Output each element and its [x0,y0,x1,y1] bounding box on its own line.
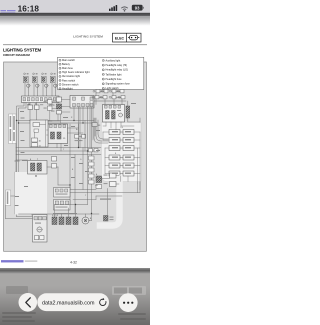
fuse labels [92,90,120,98]
top shadow under chrome [0,13,150,16]
flasher unit box [30,120,48,147]
connector box 2 [70,96,94,109]
svg-text:4-32: 4-32 [70,260,77,264]
svg-text:93: 93 [135,6,140,11]
lamp 12 [41,73,48,87]
svg-text:Illumination light: Illumination light [62,75,80,78]
wire [74,107,92,214]
right lower cluster 4 [96,173,116,189]
fuse row 13 [96,90,124,93]
wire [30,103,37,124]
svg-text:5 5 5 5: 5 5 5 5 [52,215,59,217]
wire harness verticals [80,101,95,151]
svg-text:Battery: Battery [62,63,71,66]
svg-text:12: 12 [102,74,104,76]
wire pairs exit [121,132,141,190]
wire [32,181,33,215]
wire [70,176,140,216]
diagram panel [4,62,147,251]
fuse row 14b [94,96,126,102]
svg-text:2: 2 [60,64,61,66]
wire tag speckles [15,103,136,214]
svg-text:3: 3 [60,68,61,70]
svg-text:Tail/brake light: Tail/brake light [106,73,122,76]
left trunk tags [15,118,29,207]
svg-text:14: 14 [102,83,104,85]
svg-text:10: 10 [102,65,104,67]
connector pair row 3 [109,146,134,151]
page separator shadow [0,268,150,274]
socket row bottom [52,215,78,225]
status bar [0,0,150,13]
small stack boxes mid [89,156,95,184]
connector pair row 2 [109,138,134,143]
connector strip [22,96,60,103]
junction box 13 [92,123,101,128]
svg-text:11: 11 [102,70,104,72]
connector pair row 5 [109,163,134,168]
label box left 1 [9,114,16,144]
wire relay stubs [103,122,134,130]
svg-text:Headlight: Headlight [62,87,73,90]
lamp 5 illumination light [50,73,57,87]
svg-text:Main switch: Main switch [62,59,76,62]
fuse 14 [28,103,33,109]
blurred page text in bar [2,312,146,322]
relay unit 2 [103,105,125,123]
faint next page content [6,286,146,295]
wire [96,93,140,193]
svg-text:LIGHTING SYSTEM: LIGHTING SYSTEM [3,47,41,52]
svg-text:9: 9 [103,60,104,62]
svg-text:Auxiliary light: Auxiliary light [106,59,121,62]
wire stubs pairs [103,132,140,174]
wire [16,160,70,190]
bottom bus [6,206,100,219]
svg-text:LIGHTING SYSTEM: LIGHTING SYSTEM [73,35,103,39]
wire bend right [94,118,108,143]
legend box [58,57,144,89]
svg-text:L: L [84,134,85,136]
page background [0,16,150,268]
wire harness band [100,179,120,226]
junction dots [16,120,92,214]
lamp 11 [32,73,39,87]
wire [50,102,96,200]
fuse pair left of main switch [44,100,53,111]
wire [17,103,27,217]
left harness white region [15,172,47,215]
fuse 15 [35,103,40,109]
headlight lamp 8 [82,217,92,224]
svg-text:Headlight relay (LO): Headlight relay (LO) [106,69,129,72]
main switch 1 [51,97,62,114]
svg-text:data2.manualslib.com: data2.manualslib.com [42,300,95,306]
harness white region [102,123,142,182]
svg-text:4: 4 [60,72,61,74]
svg-text:Headlight relay (Hi): Headlight relay (Hi) [106,64,128,67]
svg-text:Main fuse: Main fuse [62,67,73,70]
connector pair row 6 [109,171,134,176]
svg-text:5: 5 [60,76,61,78]
svg-text:CIRCUIT DIAGRAM: CIRCUIT DIAGRAM [3,53,30,57]
connector 13 mid [75,135,86,142]
svg-text:High beam indicator light: High beam indicator light [62,71,90,74]
wire [25,83,55,96]
svg-text:7: 7 [60,84,61,86]
svg-text:ELEC: ELEC [115,37,125,41]
svg-text:8: 8 [60,88,61,90]
wire horizontals mid [47,100,84,136]
label box left 2 [6,190,11,206]
connector cluster B [54,200,71,211]
svg-text:13: 13 [102,79,104,81]
connector pair mid2 [89,149,99,152]
svg-text:16:18: 16:18 [18,5,40,14]
small boxes col 52 [52,157,57,169]
svg-text:6: 6 [60,80,61,82]
wire [11,144,44,215]
connector cluster A [54,188,71,198]
vertical harness wires [70,124,88,214]
svg-text:Headlight fuse: Headlight fuse [106,78,123,81]
bus wires [17,121,84,124]
svg-text:Signaling system fuse: Signaling system fuse [106,83,131,86]
connector pair row 4 [109,155,134,160]
battery 2 hatched bar [126,106,130,118]
bus wires mid [16,121,101,155]
pass switch 6 dimmer 7 [28,159,48,174]
headlight assembly 8 [33,215,48,243]
tail light unit 12 [29,177,39,211]
wire [55,205,92,221]
lamp 10 auxiliary light [23,73,30,87]
bottom bar [0,286,150,325]
svg-text:Dimmer switch: Dimmer switch [62,83,79,86]
wire color labels [63,117,124,197]
lamp unit 9b [104,216,114,222]
svg-text:Pass switch: Pass switch [62,79,76,82]
connector pair row 1 [109,130,134,135]
light switch box 15 [48,124,68,144]
svg-text:1: 1 [60,60,61,62]
DIAGRAM [6,73,142,242]
